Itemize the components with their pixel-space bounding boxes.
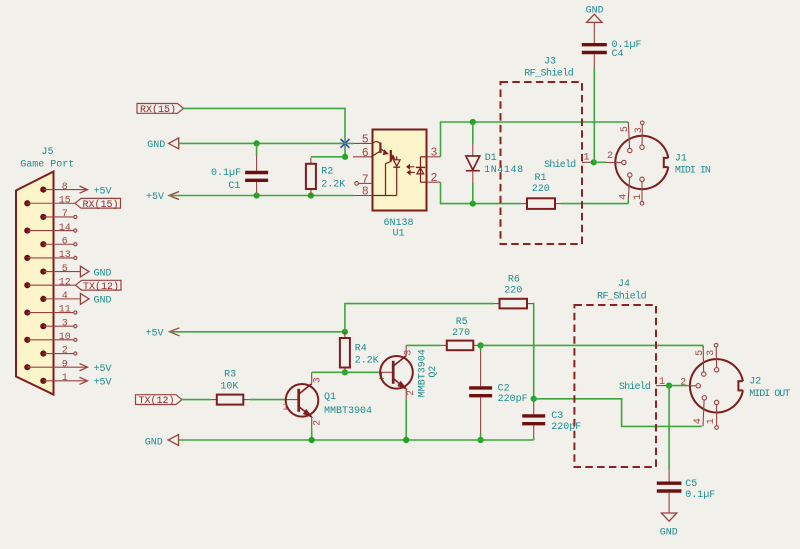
- svg-text:R1: R1: [535, 173, 547, 184]
- svg-text:RF_Shield: RF_Shield: [597, 290, 647, 302]
- svg-text:GND: GND: [94, 268, 112, 279]
- svg-text:2: 2: [312, 420, 323, 426]
- svg-text:+5V: +5V: [146, 192, 164, 203]
- svg-text:4: 4: [693, 418, 704, 424]
- svg-text:C1: C1: [228, 181, 240, 192]
- svg-text:+5V: +5V: [94, 186, 112, 197]
- svg-text:6: 6: [62, 236, 68, 247]
- svg-text:Q1: Q1: [324, 392, 336, 403]
- svg-text:MMBT3904: MMBT3904: [417, 349, 428, 397]
- svg-text:2: 2: [430, 172, 437, 185]
- svg-text:C4: C4: [612, 49, 624, 60]
- svg-text:GND: GND: [94, 296, 112, 307]
- svg-text:C3: C3: [551, 411, 563, 422]
- svg-text:R3: R3: [224, 370, 236, 381]
- svg-text:J3: J3: [544, 57, 556, 68]
- svg-text:R6: R6: [508, 275, 520, 286]
- svg-text:0.1µF: 0.1µF: [211, 168, 241, 179]
- svg-text:Q2: Q2: [428, 366, 439, 378]
- svg-text:RF_Shield: RF_Shield: [524, 68, 574, 80]
- svg-text:12: 12: [59, 277, 71, 288]
- svg-text:220: 220: [532, 184, 550, 195]
- svg-text:13: 13: [59, 250, 71, 261]
- svg-text:6: 6: [362, 147, 369, 160]
- svg-text:220pF: 220pF: [551, 422, 581, 433]
- svg-text:2: 2: [62, 346, 68, 357]
- svg-text:1N4148: 1N4148: [484, 165, 524, 176]
- svg-text:C5: C5: [685, 479, 697, 490]
- svg-text:10K: 10K: [220, 381, 238, 392]
- svg-text:Shield: Shield: [619, 381, 651, 393]
- svg-text:5: 5: [620, 126, 631, 132]
- svg-text:J2: J2: [749, 377, 761, 388]
- svg-text:RX(15): RX(15): [83, 199, 119, 211]
- svg-text:8: 8: [62, 182, 68, 193]
- svg-text:3: 3: [430, 147, 437, 160]
- svg-text:R5: R5: [456, 317, 468, 328]
- svg-text:U1: U1: [393, 228, 405, 239]
- svg-text:TX(12): TX(12): [139, 395, 175, 407]
- svg-text:1: 1: [659, 377, 665, 388]
- svg-text:+5V: +5V: [94, 378, 112, 389]
- svg-text:15: 15: [59, 195, 71, 206]
- svg-text:0.1µF: 0.1µF: [685, 490, 715, 501]
- svg-text:8: 8: [362, 186, 369, 199]
- svg-text:3: 3: [706, 350, 717, 356]
- svg-text:3: 3: [403, 350, 414, 356]
- svg-text:GND: GND: [660, 528, 678, 539]
- svg-text:J5: J5: [42, 147, 54, 158]
- svg-text:J1: J1: [675, 153, 687, 164]
- svg-text:2.2K: 2.2K: [321, 179, 345, 190]
- svg-text:R4: R4: [355, 344, 367, 355]
- svg-text:Shield: Shield: [544, 159, 576, 171]
- svg-text:MMBT3904: MMBT3904: [324, 406, 372, 417]
- svg-text:C2: C2: [498, 384, 510, 395]
- svg-text:7: 7: [62, 209, 68, 220]
- svg-text:J4: J4: [618, 279, 630, 290]
- svg-text:3: 3: [312, 377, 323, 383]
- svg-text:9: 9: [62, 359, 68, 370]
- svg-text:4: 4: [618, 194, 629, 200]
- svg-text:TX(12): TX(12): [83, 281, 119, 293]
- svg-text:2: 2: [406, 390, 417, 396]
- svg-text:+5V: +5V: [146, 328, 164, 339]
- svg-text:5: 5: [362, 134, 369, 147]
- svg-text:1: 1: [283, 402, 289, 413]
- svg-text:1: 1: [633, 194, 644, 200]
- svg-text:2: 2: [607, 151, 613, 162]
- svg-text:220: 220: [504, 286, 522, 297]
- svg-text:270: 270: [452, 328, 470, 339]
- svg-text:R2: R2: [321, 167, 333, 178]
- svg-text:2: 2: [680, 377, 686, 388]
- svg-text:3: 3: [634, 127, 645, 133]
- svg-text:Game Port: Game Port: [20, 159, 74, 170]
- svg-text:5: 5: [695, 350, 706, 356]
- svg-text:1: 1: [706, 418, 717, 424]
- svg-text:1: 1: [584, 153, 590, 164]
- svg-text:10: 10: [59, 332, 71, 343]
- svg-text:1: 1: [62, 373, 68, 384]
- svg-text:MIDI IN: MIDI IN: [675, 166, 711, 177]
- svg-text:6N138: 6N138: [384, 218, 414, 229]
- svg-text:3: 3: [62, 318, 68, 329]
- svg-text:2.2K: 2.2K: [355, 355, 379, 366]
- svg-text:14: 14: [59, 223, 71, 234]
- svg-text:220pF: 220pF: [498, 394, 528, 405]
- svg-text:GND: GND: [147, 140, 165, 151]
- svg-text:+5V: +5V: [94, 364, 112, 375]
- svg-text:4: 4: [62, 291, 68, 302]
- svg-text:5: 5: [62, 264, 68, 275]
- svg-text:MIDI OUT: MIDI OUT: [749, 389, 790, 400]
- svg-text:RX(15): RX(15): [140, 104, 176, 116]
- svg-text:D1: D1: [485, 153, 497, 164]
- svg-text:GND: GND: [145, 438, 163, 449]
- svg-text:7: 7: [362, 174, 369, 187]
- svg-text:11: 11: [59, 305, 71, 316]
